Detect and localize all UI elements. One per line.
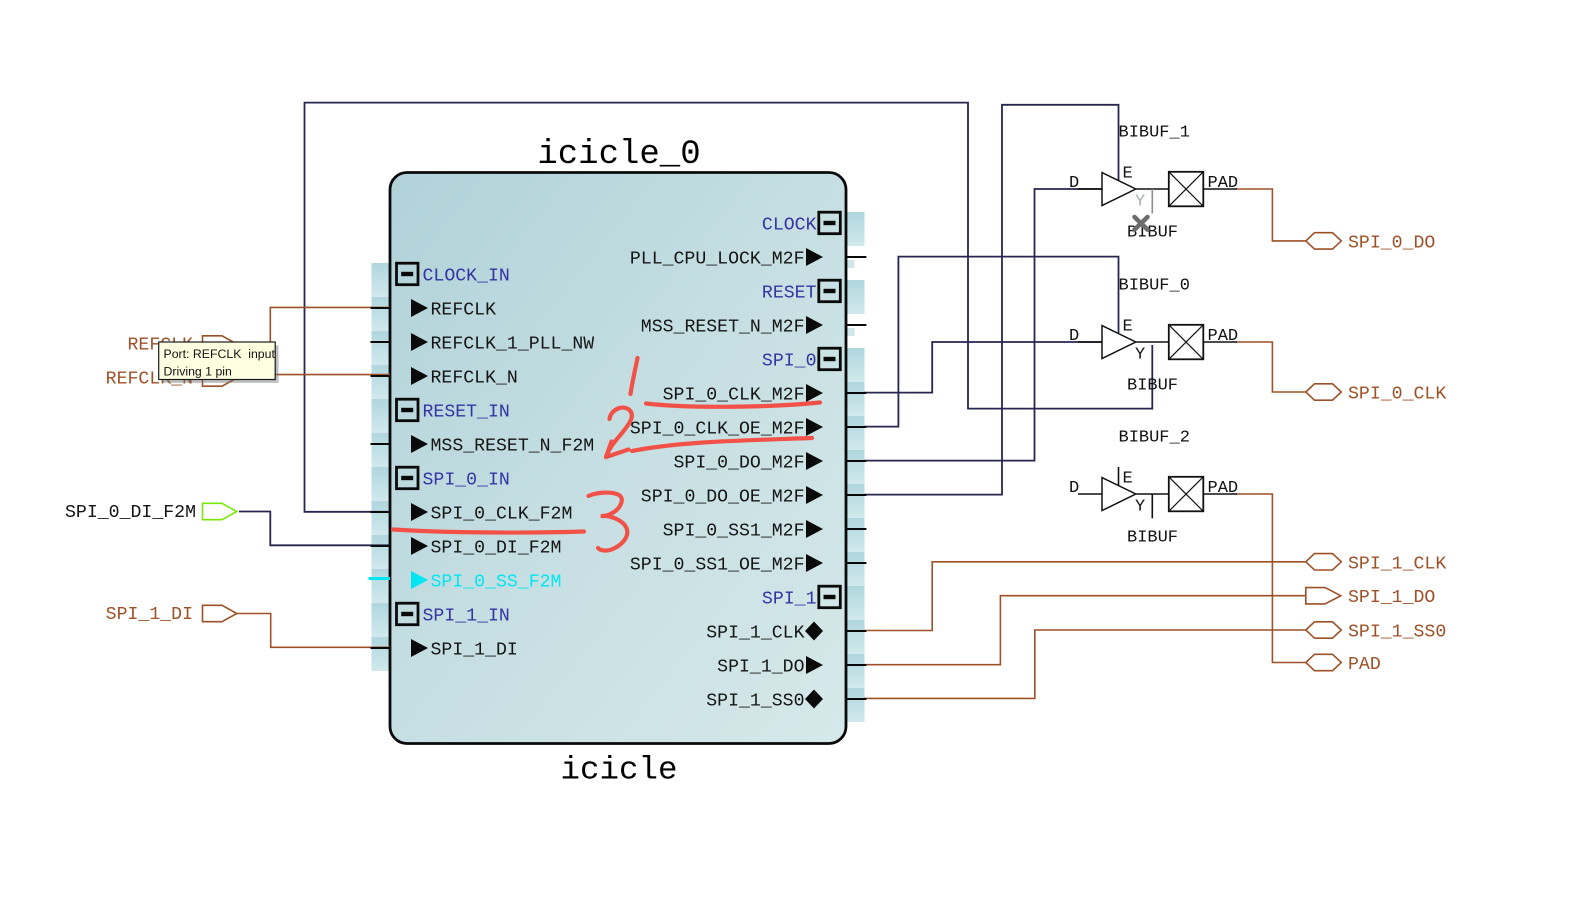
svg-text:icicle: icicle [560,752,677,789]
pin MSS_RESET_N_M2F [641,316,823,338]
inout port SPI_0_CLK [1306,384,1447,405]
wire net BIBUF_0.PAD to SPI_0_CLK port [1236,342,1306,392]
wire net REFCLK port to icicle_0.REFCLK [237,307,391,344]
svg-text:Y: Y [1135,498,1145,517]
inout port SPI_1_SS0 [1306,622,1446,643]
svg-text:PAD: PAD [1348,655,1381,675]
svg-text:SPI_0_CLK_M2F: SPI_0_CLK_M2F [663,386,805,406]
buffer BIBUF_2 [1069,429,1238,548]
pin SPI_0_SS1_OE_M2F [630,554,823,576]
svg-text:REFCLK: REFCLK [431,301,497,321]
svg-text:REFCLK_1_PLL_NW: REFCLK_1_PLL_NW [431,335,595,355]
wire net icicle_0.SPI_0_CLK_M2F to BIBUF_0.D [864,342,1103,393]
svg-text:SPI_0_CLK_F2M: SPI_0_CLK_F2M [431,505,573,525]
svg-text:PAD: PAD [1208,479,1239,498]
red annotation digit 3 [589,493,628,551]
pin SPI_1_DO [717,656,823,678]
wire net icicle_0.SPI_0_DO_OE_M2F to BIBUF_1.E [864,105,1119,495]
pin REFCLK_1_PLL_NW [411,333,594,355]
svg-text:E: E [1123,165,1133,184]
svg-text:E: E [1123,318,1133,337]
pin SPI_0_CLK_OE_M2F [630,418,823,440]
svg-text:icicle_0: icicle_0 [537,136,700,174]
cyan stub SPI_0_SS_F2M [369,577,391,580]
output port SPI_1_DO [1306,588,1436,609]
svg-text:RESET: RESET [762,284,817,304]
inout port SPI_0_DO [1306,233,1436,254]
svg-text:RESET_IN: RESET_IN [423,403,510,423]
wire net icicle_0.SPI_0_CLK_OE_M2F to BIBUF_0.E [864,257,1119,427]
svg-text:Driving 1 pin: Driving 1 pin [164,365,233,379]
svg-text:SPI_1_CLK: SPI_1_CLK [706,624,804,644]
svg-text:Y: Y [1135,346,1145,365]
svg-text:SPI_1_SS0: SPI_1_SS0 [1348,623,1446,643]
wire net icicle_0.SPI_0_DO_M2F to BIBUF_1.D [864,189,1103,461]
svg-text:SPI_0_SS1_OE_M2F: SPI_0_SS1_OE_M2F [630,556,805,576]
group pin SPI_0 [762,348,840,371]
pin SPI_0_CLK_F2M [411,503,572,525]
group pin RESET_IN [397,399,510,422]
svg-text:BIBUF: BIBUF [1127,377,1178,396]
buffer BIBUF_0 [1069,277,1238,396]
red annotation underline 1 [646,403,820,407]
input port REFCLK_N [106,370,237,390]
svg-text:MSS_RESET_N_F2M: MSS_RESET_N_F2M [431,437,595,457]
svg-text:BIBUF_2: BIBUF_2 [1119,429,1190,448]
svg-text:D: D [1069,479,1079,498]
pin highlight bands, left edge [372,263,391,671]
wire net SPI_1_DI port to icicle_0.SPI_1_DI [237,614,391,648]
wire net BIBUF_0.Y to icicle_0.SPI_0_CLK_F2M [305,103,1153,512]
svg-text:Y: Y [1135,193,1145,212]
pin SPI_0_SS1_M2F [663,520,823,542]
svg-text:SPI_1_DO: SPI_1_DO [1348,588,1435,608]
wire net icicle_0.SPI_1_DO to SPI_1_DO port [864,596,1306,665]
svg-text:SPI_0_CLK_OE_M2F: SPI_0_CLK_OE_M2F [630,420,805,440]
svg-text:BIBUF_1: BIBUF_1 [1119,124,1190,143]
svg-text:D: D [1069,327,1079,346]
tooltip Port REFCLK [159,342,279,383]
pin PLL_CPU_LOCK_M2F [630,248,823,270]
svg-text:BIBUF_0: BIBUF_0 [1119,277,1190,296]
svg-text:SPI_0_SS1_M2F: SPI_0_SS1_M2F [663,522,805,542]
input port REFCLK [128,336,237,356]
svg-text:SPI_0_DI_F2M: SPI_0_DI_F2M [65,503,196,523]
input port SPI_1_DI [106,605,237,625]
wire net icicle_0.SPI_1_SS0 to SPI_1_SS0 port [864,630,1306,698]
red annotation underline 2 [632,438,812,451]
svg-text:PAD: PAD [1208,327,1239,346]
svg-text:SPI_1_DI: SPI_1_DI [106,605,193,625]
pin highlight bands, right edge [846,212,865,722]
svg-text:PLL_CPU_LOCK_M2F: PLL_CPU_LOCK_M2F [630,250,805,270]
pin SPI_1_DI [411,639,518,661]
svg-text:D: D [1069,174,1079,193]
group pin SPI_1 [762,586,840,609]
component icicle_0 block body [390,173,846,744]
svg-text:SPI_0_DO: SPI_0_DO [1348,233,1435,253]
pin SPI_0_DO_OE_M2F [641,486,823,508]
input port SPI_0_DI_F2M (selected, green) [65,503,237,523]
svg-text:SPI_0_DO_M2F: SPI_0_DO_M2F [674,454,805,474]
group pin CLOCK_IN [397,263,510,286]
svg-text:BIBUF: BIBUF [1127,529,1178,548]
svg-text:PAD: PAD [1208,174,1239,193]
svg-text:SPI_0_SS_F2M: SPI_0_SS_F2M [431,573,562,593]
red annotation digit 2 with arrow [606,408,632,457]
svg-text:Port: REFCLK input: Port: REFCLK input [164,347,276,361]
inout port PAD [1306,654,1381,675]
svg-text:SPI_1_DI: SPI_1_DI [431,641,518,661]
svg-text:SPI_0: SPI_0 [762,352,817,372]
pin REFCLK [411,299,496,321]
wire net icicle_0.SPI_1_CLK to SPI_1_CLK port [864,562,1306,631]
group pin RESET [762,280,840,303]
svg-text:SPI_1_SS0: SPI_1_SS0 [706,692,804,712]
pin stubs right side [846,257,866,699]
group pin SPI_1_IN [397,603,510,626]
red annotation underline 3 [393,530,584,533]
wire net BIBUF_2.PAD to PAD port [1236,494,1306,663]
wire net REFCLK_N port to icicle_0.REFCLK_N [237,375,391,378]
wire net SPI_0_DI_F2M port to icicle_0.SPI_0_DI_F2M [239,512,390,546]
group pin SPI_0_IN [397,467,510,490]
svg-text:CLOCK: CLOCK [762,216,817,236]
svg-text:SPI_1: SPI_1 [762,590,817,610]
buffer BIBUF_1 [1069,124,1238,243]
svg-text:SPI_1_IN: SPI_1_IN [423,607,510,627]
pin SPI_1_CLK [706,622,823,644]
disconnect X marker on BIBUF_1.Y [1135,217,1148,230]
group pin CLOCK [762,212,840,235]
svg-text:SPI_1_CLK: SPI_1_CLK [1348,554,1446,574]
svg-text:MSS_RESET_N_M2F: MSS_RESET_N_M2F [641,318,805,338]
pin SPI_0_SS_F2M [411,571,561,593]
pin SPI_1_SS0 [706,690,823,712]
pin stubs left side [371,308,391,648]
svg-text:E: E [1123,470,1133,489]
pin MSS_RESET_N_F2M [411,435,594,457]
svg-text:SPI_1_DO: SPI_1_DO [717,658,804,678]
inout port SPI_1_CLK [1306,554,1447,575]
wire net BIBUF_1.PAD to SPI_0_DO port [1236,189,1306,241]
pin REFCLK_N [411,367,518,389]
pin SPI_0_DO_M2F [674,452,823,474]
svg-text:REFCLK_N: REFCLK_N [431,369,518,389]
svg-text:SPI_0_DO_OE_M2F: SPI_0_DO_OE_M2F [641,488,805,508]
svg-text:SPI_0_DI_F2M: SPI_0_DI_F2M [431,539,562,559]
red annotation digit 1 [631,358,638,394]
svg-text:SPI_0_CLK: SPI_0_CLK [1348,385,1446,405]
svg-text:SPI_0_IN: SPI_0_IN [423,471,510,491]
svg-text:CLOCK_IN: CLOCK_IN [423,267,510,287]
pin SPI_0_CLK_M2F [663,384,823,406]
pin SPI_0_DI_F2M [411,537,561,559]
